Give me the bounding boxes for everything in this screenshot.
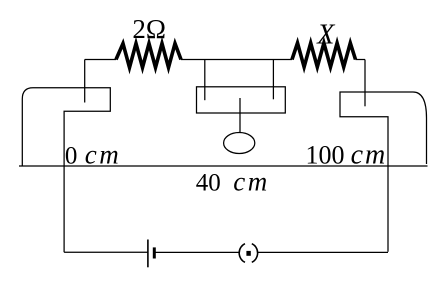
wire galvanometer left drop xyxy=(204,60,206,101)
galvanometer G xyxy=(224,133,255,154)
wire left drop to strip xyxy=(84,60,86,103)
svg-text:100: 100 xyxy=(306,141,345,170)
bridge wire baseline xyxy=(19,165,428,167)
battery negative plate xyxy=(153,247,156,258)
battery positive plate xyxy=(147,240,149,268)
svg-text:cm: cm xyxy=(85,140,121,170)
wire galvanometer lead xyxy=(239,98,241,133)
wire top-left segment xyxy=(85,59,116,61)
wire galvanometer right drop xyxy=(272,60,274,100)
key K right contact arc xyxy=(252,244,258,263)
resistor X xyxy=(292,43,356,67)
wire right drop to strip xyxy=(364,60,366,107)
svg-text:2Ω: 2Ω xyxy=(132,14,166,44)
wire bottom-left segment xyxy=(64,251,148,253)
svg-text:cm: cm xyxy=(351,140,388,171)
copper strip right xyxy=(340,92,427,252)
key K left contact arc xyxy=(239,244,245,263)
resistor R1 2Ω xyxy=(116,44,181,68)
key K plug dot xyxy=(246,251,250,256)
copper strip left xyxy=(22,88,110,253)
svg-text:cm: cm xyxy=(233,166,269,196)
svg-text:0: 0 xyxy=(65,143,78,170)
wire top-middle segment xyxy=(181,59,292,61)
wire top-right segment xyxy=(356,59,366,61)
svg-text:40: 40 xyxy=(196,169,221,196)
wire bottom-middle segment xyxy=(154,251,239,253)
wire bottom-right segment xyxy=(257,251,388,253)
copper strip center xyxy=(197,87,286,113)
svg-text:X: X xyxy=(316,20,335,51)
